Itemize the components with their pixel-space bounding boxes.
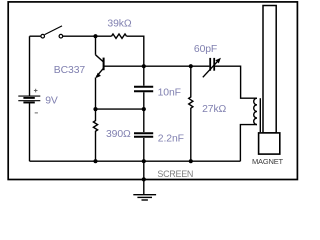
- magnet box: [259, 133, 280, 154]
- wire: battery minus to ground rail: [29, 103, 31, 161]
- wire: battery top to switch: [30, 36, 41, 95]
- screen enclosure frame: [8, 2, 297, 180]
- switch S1: [41, 26, 63, 38]
- node C junction dot (emitter row left): [93, 107, 97, 111]
- transistor Q1 BC337: [96, 55, 104, 78]
- node H junction dot: [189, 159, 193, 163]
- svg-text:9V: 9V: [45, 95, 58, 106]
- capacitor C2 2.2nF: [134, 109, 153, 161]
- svg-text:2.2nF: 2.2nF: [158, 133, 184, 144]
- capacitor C1 10nF: [134, 66, 153, 109]
- svg-text:60pF: 60pF: [194, 44, 217, 55]
- node G junction dot: [142, 159, 146, 163]
- node E junction dot (27k top): [189, 64, 193, 68]
- wire: rail to screen frame: [143, 161, 145, 179]
- glass tube (tall rectangle): [263, 6, 276, 133]
- wire: R1 to base column: [127, 36, 144, 66]
- ground rail wire: [30, 160, 241, 162]
- battery BT1 9V: [18, 89, 40, 113]
- svg-text:27kΩ: 27kΩ: [202, 104, 226, 115]
- wire: base row to 27k and 60pF: [144, 65, 210, 67]
- resistor R1 39kΩ: [112, 34, 127, 38]
- wire: emitter drop: [95, 77, 97, 109]
- resistor R3 27kΩ: [189, 66, 193, 161]
- ground symbol: [133, 179, 156, 200]
- node D junction dot (emitter row right / 10nF bottom): [142, 107, 146, 111]
- wire: base lead: [104, 65, 144, 67]
- wire: coil bottom to ground rail: [240, 125, 257, 162]
- svg-text:SCREEN: SCREEN: [157, 169, 193, 179]
- resistor R2 390Ω: [93, 109, 97, 161]
- inductor L1 coil: [254, 98, 261, 132]
- wire: 60pF to coil top: [215, 66, 257, 98]
- svg-text:10nF: 10nF: [158, 87, 181, 98]
- svg-text:MAGNET: MAGNET: [252, 157, 284, 166]
- wire: collector drop: [95, 36, 97, 55]
- wire: switch to node A: [63, 35, 112, 37]
- capacitor C3 60pF (trimmer): [203, 58, 221, 78]
- node I junction dot on frame: [142, 177, 146, 181]
- svg-text:390Ω: 390Ω: [106, 129, 131, 140]
- node A junction dot: [93, 34, 97, 38]
- svg-text:39kΩ: 39kΩ: [107, 19, 131, 30]
- wire: emitter row: [96, 108, 144, 110]
- node B junction dot (base / 10nF top): [142, 64, 146, 68]
- svg-text:BC337: BC337: [54, 65, 86, 76]
- node F junction dot: [93, 159, 97, 163]
